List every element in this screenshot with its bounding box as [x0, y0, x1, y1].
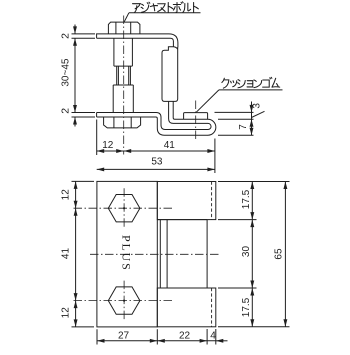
plan: lower hex centerlines	[74, 300, 175, 302]
dim 3 extension line (pad top)	[215, 111, 254, 113]
adjuster sleeve lower section	[112, 85, 114, 113]
plan dim 4 arrow and text	[216, 339, 224, 343]
adjust bolt hex head (side view)	[108, 22, 139, 34]
strap below cushion bending into foot top layer	[169, 101, 208, 123]
svg-text:12: 12	[60, 307, 71, 319]
label cushion-rubber (katakana) with underline and leader	[222, 77, 280, 88]
plan dim 27 arrows and text	[97, 339, 105, 343]
svg-text:53: 53	[151, 156, 163, 167]
svg-text:4: 4	[210, 331, 216, 342]
dim 12 arrows and text	[97, 149, 105, 153]
svg-text:22: 22	[179, 331, 191, 342]
foot U-turn outer fold	[208, 119, 216, 135]
svg-text:12: 12	[102, 140, 114, 151]
dim 12-41 dimension line	[97, 150, 215, 152]
dim 12 extension line left	[96, 120, 98, 156]
plan: upper hex centerlines	[74, 207, 175, 209]
bolt threaded mid section	[116, 66, 118, 85]
svg-text:27: 27	[118, 331, 130, 342]
plan: lower bolt hex head	[108, 287, 140, 314]
plan dim right extension lines	[218, 181, 290, 183]
svg-text:2: 2	[59, 33, 71, 39]
plan: strap middle band edges	[157, 219, 207, 221]
label adjust-bolt (katakana) with underline and leader	[133, 2, 199, 13]
plan dim right inner line	[251, 182, 253, 327]
svg-text:12: 12	[60, 189, 71, 201]
svg-text:17.5: 17.5	[241, 189, 252, 209]
dim 3 line arrows leader and text	[251, 102, 253, 120]
plan dim left line	[75, 181, 77, 327]
plan: main plate outline	[97, 181, 157, 327]
plan dim 30 arrows and text	[250, 220, 254, 228]
plan dim bottom extension lines	[96, 329, 98, 344]
dim 53 dimension line with arrows	[97, 168, 215, 170]
pad centerline	[195, 101, 197, 141]
svg-text:17.5: 17.5	[241, 297, 252, 317]
plan: lower pad hidden fold line	[211, 288, 213, 327]
svg-text:30: 30	[241, 246, 252, 258]
dim 2 (top plate thickness) extension lines	[72, 33, 96, 35]
plan dim 65 line arrows and text	[284, 182, 286, 327]
dim 7 line arrows and text	[251, 119, 253, 135]
svg-text:7: 7	[238, 124, 249, 130]
plan dim 12 lower arrows and text	[74, 301, 78, 309]
cushion rubber pad on foot	[184, 113, 208, 120]
svg-text:41: 41	[60, 248, 71, 260]
foot U-turn inner fold	[208, 123, 211, 129]
dim 53 extension line right	[214, 139, 216, 174]
top clamp plate with right-angle bend	[97, 34, 178, 47]
bolt centerline	[123, 16, 125, 155]
plan: upper foot pad rectangle	[157, 182, 216, 220]
plan: strap joggle lines	[159, 220, 161, 288]
plan: upper pad hidden fold line	[211, 182, 213, 220]
bolt shank upper section	[113, 38, 115, 66]
plan dim 41 arrows and text	[74, 208, 78, 216]
dim 41 arrows and text	[124, 149, 132, 153]
plan dim 22 arrows and text	[157, 339, 165, 343]
plan dim bottom line	[97, 340, 216, 342]
dim 7 extension line (foot bottom)	[218, 134, 254, 136]
plan dim left extension lines	[72, 180, 95, 182]
hex nut under bottom plate	[104, 117, 141, 128]
svg-text:PLUS: PLUS	[120, 235, 134, 272]
dim 2 (bottom plate thickness) extension lines	[72, 112, 96, 114]
plan dim 17.5 lower arrows and text	[250, 288, 254, 296]
cushion rubber sleeve on vertical strap	[162, 47, 178, 102]
bottom plate stepping down to foot	[97, 113, 208, 130]
plan: lower foot pad rectangle	[157, 288, 216, 327]
svg-text:65: 65	[274, 248, 285, 260]
dim 2 (top) arrows and text	[74, 25, 76, 34]
dim 2 (bottom) arrows and text	[74, 117, 76, 127]
dim 30~45 line with arrows	[74, 38, 76, 112]
plan: upper bolt hex head	[108, 195, 140, 222]
svg-text:3: 3	[252, 103, 263, 109]
plan: horizontal centerline	[90, 253, 221, 255]
svg-text:41: 41	[164, 140, 176, 151]
plan dim 12 upper arrows and text	[74, 181, 78, 189]
svg-text:2: 2	[59, 108, 71, 114]
plan dim 17.5 upper arrows and text	[250, 182, 254, 190]
svg-text:30~45: 30~45	[60, 58, 71, 87]
dim 7 extension line (foot top)	[218, 118, 254, 120]
